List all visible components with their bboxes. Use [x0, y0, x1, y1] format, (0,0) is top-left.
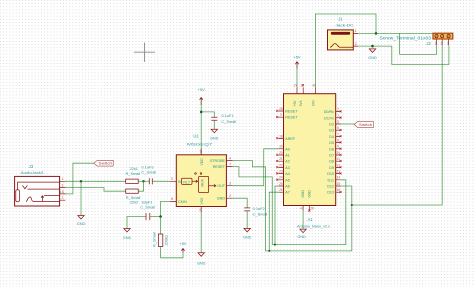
svg-text:FILT: FILT: [183, 181, 190, 185]
svg-text:3: 3: [280, 113, 282, 117]
svg-text:D13: D13: [327, 191, 334, 195]
svg-text:+5V: +5V: [293, 55, 300, 60]
svg-text:MSGEQ7: MSGEQ7: [187, 142, 213, 147]
svg-text:5: 5: [337, 120, 339, 124]
svg-text:11: 11: [337, 157, 341, 161]
junction J1 pin1 / VIN node: [375, 32, 378, 35]
svg-text:A1: A1: [285, 154, 290, 158]
svg-text:D8: D8: [329, 160, 334, 164]
svg-text:GND: GND: [77, 222, 86, 226]
wire terminal pin2 data line to outer run: [352, 45, 442, 205]
svg-text:J3: J3: [29, 164, 34, 169]
svg-text:2: 2: [62, 196, 64, 200]
svg-text:26: 26: [279, 188, 283, 192]
svg-text:10: 10: [336, 151, 340, 155]
wire A1 VIN to J1 pin1: [315, 14, 376, 87]
svg-text:D0/Rx: D0/Rx: [324, 110, 334, 114]
junction at jack pin1 node: [80, 180, 82, 182]
resistor R1 22k1: [126, 166, 141, 183]
svg-text:STROBE: STROBE: [210, 159, 226, 163]
capacitor C3 0.1uF1: [211, 113, 236, 124]
svg-text:18: 18: [279, 134, 283, 138]
svg-text:VDD: VDD: [200, 158, 204, 166]
svg-text:2: 2: [441, 41, 443, 45]
ground GND under A1: [297, 229, 306, 239]
no-connect marks A1 left pins: [276, 110, 278, 181]
ground GND under jack: [77, 216, 86, 226]
svg-text:3: 3: [229, 182, 231, 186]
connector J2 Screw_Terminal_01x03: [380, 33, 453, 46]
capacitor C2 33pF1: [140, 200, 155, 221]
wire U1 STROBE to A1 D12 (outer run): [233, 161, 352, 251]
svg-text:1: 1: [200, 150, 202, 154]
svg-text:+5V: +5V: [179, 241, 186, 246]
svg-text:GND: GND: [243, 235, 252, 239]
op-amp U1 MSGEQ7: [170, 133, 233, 212]
wire A1 A6 to inner run: [275, 186, 278, 245]
svg-text:D9: D9: [329, 166, 334, 170]
svg-text:A2: A2: [285, 160, 290, 164]
svg-text:MUX: MUX: [201, 178, 205, 186]
transistor A1 Arduino_Nano_v2.x: [278, 83, 340, 228]
wire C3 to ground: [213, 121, 215, 129]
wire C2 right to junction: [150, 216, 161, 218]
capacitor C4 0.1uF2: [244, 206, 267, 217]
svg-text:5: 5: [171, 177, 173, 181]
svg-text:21: 21: [279, 157, 283, 161]
svg-text:23: 23: [279, 170, 283, 174]
svg-text:1: 1: [337, 114, 339, 118]
svg-text:29: 29: [310, 207, 314, 211]
svg-text:D10: D10: [327, 172, 334, 176]
no-connect mark A1 3V3 pin: [302, 84, 304, 86]
junction R1-R2-C1 node: [142, 180, 144, 182]
junction +5V node: [200, 111, 203, 114]
capacitor C1 0.1uF3: [141, 165, 156, 185]
svg-text:GND: GND: [307, 190, 311, 198]
wire A1 D2 to Switch label: [341, 123, 354, 125]
junction J1 pin2 ground node: [371, 45, 374, 48]
wire A1 A7 to outer run: [269, 192, 278, 251]
svg-text:GND: GND: [217, 197, 226, 201]
wire +5V node to C3: [201, 112, 214, 117]
U1 internal filter block: [182, 178, 193, 184]
wire U1 VSS to ground: [200, 213, 202, 253]
svg-text:7: 7: [229, 163, 231, 167]
svg-text:GND: GND: [301, 190, 305, 198]
connector J3 AudioJack3: [15, 164, 66, 206]
wire U1 RESET to A1 D11 (inner run): [233, 167, 346, 245]
svg-text:A0: A0: [285, 147, 290, 151]
no-connect mark A1 GND pin29: [308, 210, 310, 212]
svg-text:RESET: RESET: [213, 165, 226, 169]
global label Switch (left): [94, 160, 113, 166]
svg-text:D7: D7: [329, 154, 334, 158]
svg-text:A1: A1: [307, 217, 313, 222]
resistor R3 200k1: [152, 232, 169, 247]
svg-text:GND: GND: [197, 262, 206, 266]
wire +5V down to U1 VDD: [200, 101, 202, 155]
svg-text:RESET: RESET: [285, 110, 298, 114]
wire R3 bottom to +5V: [161, 247, 183, 258]
wire jack pin1S to Switch label: [66, 163, 94, 194]
svg-text:22: 22: [279, 163, 283, 167]
svg-text:Jack-DC: Jack-DC: [335, 22, 353, 27]
svg-text:13: 13: [336, 170, 340, 174]
svg-text:28: 28: [279, 107, 283, 111]
svg-text:U1: U1: [193, 133, 199, 138]
wire U1 CKIN to cap node: [161, 202, 171, 217]
svg-text:0.1uF1: 0.1uF1: [221, 113, 233, 118]
svg-text:GND: GND: [368, 56, 377, 60]
svg-text:C_Small: C_Small: [221, 119, 236, 124]
wire C1 to U1 IN: [153, 180, 170, 182]
svg-text:GND: GND: [297, 235, 306, 239]
svg-text:CKIN: CKIN: [178, 200, 187, 204]
svg-text:AudioJack3: AudioJack3: [21, 170, 45, 175]
svg-text:Switch: Switch: [359, 123, 373, 127]
svg-text:6: 6: [337, 126, 339, 130]
svg-text:D6: D6: [329, 147, 334, 151]
svg-text:J2: J2: [426, 41, 431, 46]
wire J1 pin2 ground run to terminal pin3: [358, 45, 449, 64]
svg-text:+5V: +5V: [293, 100, 297, 107]
svg-text:4: 4: [300, 207, 302, 211]
wire +5V to A1 pin27: [296, 68, 298, 88]
svg-text:R_Small: R_Small: [126, 171, 141, 176]
wire jack pin1 to R1: [66, 180, 126, 182]
svg-text:3: 3: [62, 184, 64, 188]
svg-text:AREF: AREF: [285, 137, 296, 141]
svg-text:Switch: Switch: [99, 162, 113, 166]
svg-text:D12: D12: [327, 185, 334, 189]
connector J1 Jack-DC: [328, 16, 359, 50]
svg-text:A7: A7: [285, 191, 290, 195]
svg-text:D1/Tx: D1/Tx: [324, 116, 334, 120]
svg-text:200k1: 200k1: [163, 235, 168, 246]
svg-text:16: 16: [336, 188, 340, 192]
wire R2 right to node: [138, 181, 143, 191]
svg-text:+5V: +5V: [198, 87, 205, 92]
svg-text:3V3: 3V3: [299, 100, 303, 106]
junction A7 node: [268, 250, 270, 252]
U1 internal mux block: [199, 176, 209, 192]
wire R1 to C1: [138, 180, 149, 182]
svg-text:GND: GND: [123, 236, 132, 240]
wire C4 to ground: [246, 211, 248, 228]
svg-text:D4: D4: [329, 135, 334, 139]
svg-text:D3: D3: [329, 129, 334, 133]
svg-text:Screw_Terminal_01x03: Screw_Terminal_01x03: [380, 36, 432, 41]
svg-text:VSS: VSS: [200, 197, 204, 205]
wire jack pin3 to R2: [66, 188, 126, 192]
svg-text:1: 1: [435, 41, 437, 45]
svg-text:OUT: OUT: [217, 184, 226, 188]
junction CKIN node: [159, 215, 162, 218]
svg-text:20: 20: [279, 151, 283, 155]
svg-text:C_Small: C_Small: [140, 204, 155, 209]
svg-text:A4: A4: [285, 172, 290, 176]
svg-text:D11: D11: [328, 178, 335, 182]
svg-text:3: 3: [447, 41, 449, 45]
wire terminal pin1 loop: [400, 33, 437, 54]
ground GND under J1: [368, 49, 377, 60]
svg-text:R_Small: R_Small: [152, 232, 157, 247]
svg-text:1S: 1S: [60, 190, 65, 194]
global label Switch (right): [354, 122, 373, 128]
svg-text:A6: A6: [285, 185, 290, 189]
svg-text:Arduino_Nano_v2.x: Arduino_Nano_v2.x: [297, 224, 330, 229]
ground GND under U1: [197, 253, 206, 266]
svg-text:2: 2: [337, 108, 339, 112]
svg-text:J1: J1: [338, 16, 343, 21]
svg-text:1: 1: [355, 29, 357, 33]
ground GND under C2: [123, 229, 132, 241]
wire J1 pin1 to screw terminal run: [358, 32, 433, 34]
svg-text:22k2: 22k2: [130, 200, 138, 205]
power +5V near R3: [179, 241, 186, 252]
wire A1 GND to ground: [302, 211, 304, 229]
svg-text:25: 25: [279, 182, 283, 186]
svg-text:A3: A3: [285, 166, 290, 170]
svg-text:VIN: VIN: [311, 100, 315, 106]
ground GND under C4: [243, 228, 252, 239]
power +5V above A1: [293, 55, 300, 69]
svg-text:1: 1: [62, 177, 64, 181]
svg-text:0.1uF2: 0.1uF2: [253, 206, 265, 211]
svg-text:6: 6: [200, 208, 202, 212]
svg-text:C_Small: C_Small: [141, 169, 156, 174]
svg-text:7: 7: [337, 132, 339, 136]
svg-text:12: 12: [336, 163, 340, 167]
sheet origin cross: [134, 43, 155, 63]
svg-text:2: 2: [229, 194, 231, 198]
ground GND right of C3: [210, 129, 219, 140]
wire U1 GND pin to C4: [233, 198, 248, 207]
svg-text:D5: D5: [329, 141, 334, 145]
svg-text:RESET: RESET: [285, 116, 298, 120]
svg-text:15: 15: [336, 182, 340, 186]
wire C2 left to ground: [127, 217, 146, 229]
svg-text:19: 19: [279, 145, 283, 149]
svg-text:9: 9: [337, 145, 339, 149]
wire junction down to R3: [160, 217, 162, 235]
svg-text:GND: GND: [210, 137, 219, 141]
svg-text:8: 8: [171, 197, 173, 201]
svg-text:4: 4: [229, 156, 231, 160]
wire U1 OUT to A1 A0: [233, 149, 279, 186]
svg-text:8: 8: [337, 139, 339, 143]
svg-text:14: 14: [336, 176, 340, 180]
junction data line node: [351, 204, 353, 206]
svg-text:A5: A5: [285, 178, 290, 182]
power +5V above U1: [198, 87, 205, 105]
svg-text:D2: D2: [329, 123, 334, 127]
no-connect marks A1 right pins: [340, 110, 342, 193]
svg-text:2: 2: [355, 42, 357, 46]
svg-text:24: 24: [279, 176, 283, 180]
resistor R2 22k2: [126, 189, 141, 205]
wire jack pin1 node to ground: [80, 181, 82, 215]
junction A6 node: [274, 244, 276, 246]
